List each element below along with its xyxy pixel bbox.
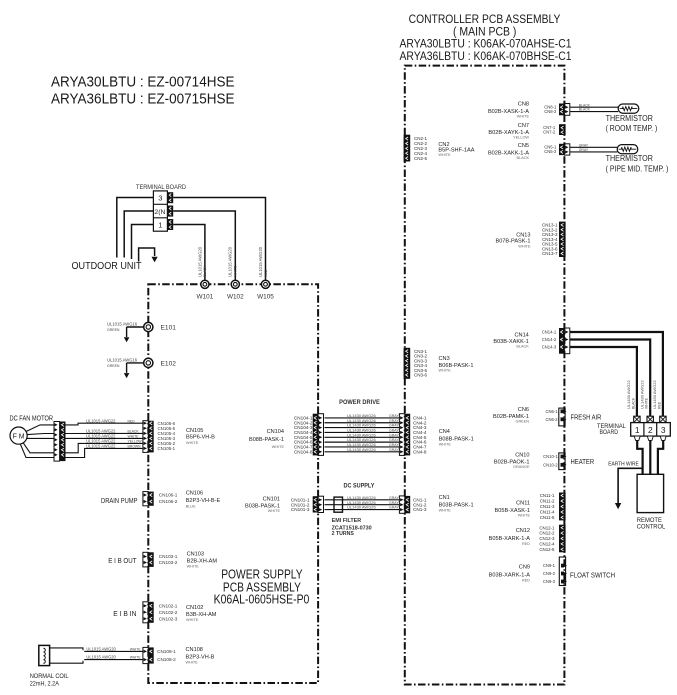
earth terminal E102 [127,362,144,364]
power supply PCB assembly border [148,284,318,683]
svg-text:WHITE: WHITE [186,618,199,622]
connector CN1 [399,496,404,513]
svg-text:GRAY: GRAY [389,433,399,437]
svg-text:BLACK: BLACK [579,103,591,107]
svg-text:UL1015 AWG20: UL1015 AWG20 [228,246,233,277]
svg-text:CN11-1: CN11-1 [540,493,555,498]
earth terminal E101 [127,326,144,328]
svg-text:CN106-2: CN106-2 [159,499,178,504]
svg-text:CN13: CN13 [516,232,530,238]
svg-text:GRAY: GRAY [389,429,399,433]
svg-text:WHITE: WHITE [439,443,452,447]
wire GRAY CN5-2 to thermistor [570,151,617,153]
svg-text:GRAY: GRAY [579,148,589,152]
svg-text:CN8: CN8 [518,101,529,107]
svg-text:FRESH AIR: FRESH AIR [571,412,602,421]
connector CN106 [143,492,148,506]
svg-text:F M: F M [13,433,25,440]
connector CN14 [564,328,569,354]
svg-text:CN108-2: CN108-2 [157,657,176,662]
wire terminal 1 to W101 [173,225,205,280]
svg-text:CN10-1: CN10-1 [543,454,558,459]
wire terminal 3 to outdoor unit [117,198,154,258]
svg-text:CN6-2: CN6-2 [545,417,558,422]
svg-text:GRAY: GRAY [389,501,399,505]
svg-text:CN104-8: CN104-8 [294,449,313,454]
wire UL1430 AWG26 GRAY CN104-1 to CN4-1 [325,417,400,419]
svg-text:WHITE: WHITE [130,647,142,651]
svg-text:E101: E101 [161,325,177,332]
svg-text:UL1015 AWG16: UL1015 AWG16 [107,358,138,363]
remote control box [637,474,664,512]
svg-text:WHITE: WHITE [186,661,199,665]
svg-text:CN1: CN1 [439,495,450,501]
svg-text:YELLOW: YELLOW [128,440,143,444]
wire GRAY CN5-1 to thermistor [570,146,617,148]
connector CN5 [564,144,569,155]
svg-text:22mH, 2.2A: 22mH, 2.2A [30,681,60,688]
svg-text:CN6: CN6 [518,407,529,413]
wire UL1015 AWG22 BLACK to CN105-4 [66,432,143,434]
svg-text:B5P6-VH-B: B5P6-VH-B [186,435,215,441]
wire terminal 2 to W102 [173,211,235,280]
inline connector fan motor [54,422,60,462]
connector CN8 [564,104,569,116]
svg-text:UL1015 AWG16: UL1015 AWG16 [107,322,138,327]
svg-text:BOARD: BOARD [600,429,619,436]
connector CN10 [559,453,565,470]
svg-text:UL1015 AWG20: UL1015 AWG20 [86,655,116,660]
connector CN3 [404,348,411,379]
svg-text:CN12-2: CN12-2 [539,531,555,536]
svg-text:GRAY: GRAY [389,438,399,442]
connector W101 [201,280,209,288]
connector CN7 [559,124,566,135]
svg-text:ARYA30LBTU : EZ-00714HSE: ARYA30LBTU : EZ-00714HSE [51,74,235,90]
svg-text:BLACK: BLACK [631,397,635,409]
svg-text:CN14-2: CN14-2 [542,337,557,342]
svg-text:2 TURNS: 2 TURNS [332,531,354,537]
svg-text:2(N: 2(N [154,209,165,216]
svg-text:CN11: CN11 [516,501,530,507]
connector CN103 [143,552,148,567]
connector CN102 [143,602,148,623]
svg-text:E102: E102 [161,361,177,368]
svg-text:CN3: CN3 [439,356,450,362]
svg-text:NORMAL COIL: NORMAL COIL [30,673,69,680]
wire terminal 1 to outdoor unit [132,225,154,260]
svg-text:GREEN: GREEN [107,364,120,368]
svg-text:EARTH WIRE: EARTH WIRE [608,461,639,467]
svg-text:CN108: CN108 [186,647,203,653]
svg-text:W105: W105 [257,294,274,301]
svg-text:BLACK: BLACK [203,265,207,277]
svg-text:WHITE: WHITE [645,397,649,409]
svg-text:CN10-2: CN10-2 [543,462,558,467]
svg-text:GREEN: GREEN [515,420,529,424]
svg-text:CN4-8: CN4-8 [413,449,427,454]
connector CN105 [143,421,148,453]
svg-text:EMI FILTER: EMI FILTER [332,518,362,524]
svg-text:GRAY: GRAY [389,496,399,500]
svg-text:WHITE: WHITE [268,509,281,513]
wire UL1430 AWG26 GRAY CN104-3 to CN4-3 [325,427,400,429]
svg-text:1: 1 [158,221,162,230]
wire UL1015 AWG22 WHITE to CN105-3 [66,437,143,439]
svg-text:UL1015 AWG20: UL1015 AWG20 [86,646,116,651]
wire BLACK CN8-2 to thermistor [570,111,618,113]
svg-text:YELLOW: YELLOW [513,136,529,140]
thermistor room temp [618,104,639,113]
svg-text:FLOAT SWITCH: FLOAT SWITCH [570,571,615,580]
svg-text:CN103-1: CN103-1 [159,554,178,559]
svg-text:RED: RED [657,401,661,409]
connector CN2 [404,135,411,162]
svg-text:W101: W101 [197,294,214,301]
svg-text:CN11-4: CN11-4 [540,510,555,515]
connector CN9 [559,557,565,586]
connector CN101 [318,496,323,512]
svg-text:BLUE: BLUE [186,504,196,508]
svg-text:ORANGE: ORANGE [513,465,530,469]
svg-text:WHITE: WHITE [518,245,531,249]
svg-text:CN9: CN9 [519,565,530,571]
wire terminal 3 to W105 [173,198,265,280]
svg-text:CN108-1: CN108-1 [157,649,176,654]
connector CN104 [318,414,323,456]
svg-text:UL1015 AWG22: UL1015 AWG22 [86,418,116,423]
svg-text:B2P3-VH-B: B2P3-VH-B [186,654,215,660]
svg-text:3: 3 [661,425,666,435]
svg-text:CN5: CN5 [518,143,529,149]
svg-text:CN12-5: CN12-5 [539,547,555,552]
EMI filter [334,497,343,512]
svg-text:RED: RED [264,269,268,277]
connector CN6 [559,408,565,426]
wire CN14-2 to terminal 2 [570,340,650,417]
connector CN4 [399,414,404,456]
svg-text:CN13-7: CN13-7 [542,251,558,256]
thermistor pipe mid temp [617,145,638,154]
svg-text:UL1015 AWG20: UL1015 AWG20 [258,246,263,277]
connector W105 [261,280,269,288]
svg-text:CN101: CN101 [263,497,280,503]
svg-text:BLACK: BLACK [579,108,591,112]
svg-text:RED: RED [522,542,530,546]
svg-text:CN4: CN4 [439,429,450,435]
svg-text:CN104: CN104 [267,429,284,435]
wire terminal 2 to remote control [649,440,651,474]
svg-text:WHITE: WHITE [272,445,285,449]
svg-text:GRAY: GRAY [389,414,399,418]
svg-text:WHITE: WHITE [518,514,531,518]
svg-text:WHITE: WHITE [186,441,199,445]
svg-text:ARYA36LBTU : K06AK-070BHSE-C1: ARYA36LBTU : K06AK-070BHSE-C1 [400,49,572,63]
svg-text:CN103-2: CN103-2 [159,560,178,565]
svg-text:GRAY: GRAY [389,448,399,452]
svg-text:GRAY: GRAY [389,443,399,447]
svg-text:POWER DRIVE: POWER DRIVE [339,399,380,406]
wire CN14-3 to terminal 1 [570,347,637,416]
svg-text:3: 3 [158,194,162,203]
wire UL1015 AWG22 YELLOW to CN105-2 [66,443,143,452]
wire UL1430 AWG26 GRAY CN101-3 to CN1-3 [325,509,400,511]
wire CN14-1 to terminal 3 [570,332,663,416]
svg-text:CN10: CN10 [515,452,529,458]
svg-text:UL1015 AWG22: UL1015 AWG22 [86,444,116,449]
wire UL1430 AWG26 GRAY CN104-6 to CN4-6 [325,441,400,443]
wire UL1015 AWG20 WHITE to CN108-2 [84,659,143,661]
terminal crimps [634,436,640,440]
svg-text:WHITE: WHITE [439,368,452,372]
wire UL1015 AWG22 BROWN to CN105-1 [66,448,143,457]
svg-text:CN8-2: CN8-2 [544,109,557,114]
svg-text:OUTDOOR UNIT: OUTDOOR UNIT [72,261,143,272]
wire UL1430 AWG26 GRAY CN101-2 to CN1-2 [325,504,400,506]
svg-text:B03B-PASK-1: B03B-PASK-1 [439,502,474,508]
svg-text:E I B OUT: E I B OUT [108,558,137,565]
svg-text:CN12: CN12 [516,528,530,534]
svg-text:UL1430 AWG26: UL1430 AWG26 [347,447,377,452]
svg-text:DC SUPPLY: DC SUPPLY [344,482,375,489]
wire terminal 3 to remote control [658,440,663,474]
svg-text:DRAIN PUMP: DRAIN PUMP [101,496,138,505]
svg-text:CN102-2: CN102-2 [159,610,178,615]
svg-text:CN5-2: CN5-2 [544,149,557,154]
controller PCB assembly border [405,66,565,685]
svg-text:CN105: CN105 [186,428,203,434]
svg-text:CN14-1: CN14-1 [542,330,557,335]
svg-text:GREEN: GREEN [107,328,120,332]
outdoor unit earth wire [139,248,155,262]
connector CN12 [559,525,566,553]
wire UL1430 AWG26 GRAY CN104-7 to CN4-7 [325,446,400,448]
svg-text:CN7: CN7 [518,123,529,129]
svg-text:BLACK: BLACK [517,156,530,160]
svg-text:WHITE: WHITE [438,153,451,157]
svg-text:RED: RED [522,578,530,582]
svg-text:CN9-1: CN9-1 [543,563,556,568]
wire UL1430 AWG26 GRAY CN104-2 to CN4-2 [325,422,400,424]
wire UL1430 AWG26 GRAY CN104-5 to CN4-5 [325,436,400,438]
connector CN13 [559,222,566,257]
svg-text:B07B-PASK-1: B07B-PASK-1 [495,239,530,245]
svg-text:CONTROL: CONTROL [637,524,666,531]
svg-text:CN105-1: CN105-1 [158,446,176,451]
svg-text:B08B-PASK-1: B08B-PASK-1 [439,436,474,442]
wire UL1015 AWG22 RED to CN105-6 [66,423,143,425]
svg-text:CN11-5: CN11-5 [540,515,555,520]
wire terminal 2 to outdoor unit [124,211,153,258]
svg-text:CN3-6: CN3-6 [414,373,428,378]
svg-text:CN11-2: CN11-2 [540,499,555,504]
wire UL1430 AWG26 GRAY CN101-1 to CN1-1 [325,499,400,501]
svg-text:RED: RED [128,419,136,423]
svg-text:THERMISTOR: THERMISTOR [606,114,653,123]
svg-text:CN9-2: CN9-2 [543,571,556,576]
svg-text:WHITE: WHITE [439,509,452,513]
connector CN11 [559,493,566,521]
svg-text:CN11-3: CN11-3 [540,504,555,509]
wire UL1015 AWG20 WHITE to CN108-1 [84,650,143,652]
svg-text:( ROOM TEMP. ): ( ROOM TEMP. ) [606,124,658,133]
svg-text:CN1-3: CN1-3 [413,507,427,512]
svg-text:CN102: CN102 [186,605,203,611]
svg-text:GRAY: GRAY [389,419,399,423]
svg-text:B2B-XH-AM: B2B-XH-AM [187,559,218,565]
splice symbols [634,416,640,422]
svg-text:K06AL-0605HSE-P0: K06AL-0605HSE-P0 [214,592,310,607]
connector CN108 [143,647,148,663]
svg-text:CN102-3: CN102-3 [159,616,178,621]
svg-text:W102: W102 [227,294,244,301]
svg-text:CN9-3: CN9-3 [543,579,556,584]
svg-text:WHITE: WHITE [128,435,140,439]
svg-text:BLACK: BLACK [516,345,529,349]
svg-text:THERMISTOR: THERMISTOR [606,154,653,163]
connector W102 [231,280,239,288]
svg-text:CN12-4: CN12-4 [539,542,555,547]
svg-text:UL1015 AWG20: UL1015 AWG20 [197,246,202,277]
svg-text:CN103: CN103 [187,552,204,558]
svg-text:BLACK: BLACK [128,430,140,434]
svg-text:1: 1 [635,425,640,435]
wire UL1430 AWG26 GRAY CN104-8 to CN4-8 [325,451,400,453]
svg-text:TERMINAL BOARD: TERMINAL BOARD [136,184,186,191]
svg-text:BROWN: BROWN [128,445,142,449]
wire terminal 1 to remote control [637,440,642,474]
svg-text:GRAY: GRAY [389,506,399,510]
svg-text:WHITE: WHITE [517,115,530,119]
svg-text:CN2-5: CN2-5 [414,156,428,161]
svg-text:CN12-1: CN12-1 [539,525,555,530]
svg-text:B3B-XH-AM: B3B-XH-AM [186,612,217,618]
svg-text:CN101-3: CN101-3 [291,507,310,512]
svg-text:WHITE: WHITE [187,565,200,569]
svg-text:2: 2 [648,425,653,435]
svg-text:GRAY: GRAY [579,143,589,147]
svg-text:HEATER: HEATER [571,457,595,466]
svg-text:B2P3-VH-B-E: B2P3-VH-B-E [186,498,221,504]
svg-text:B08B-PASK-1: B08B-PASK-1 [249,437,284,443]
svg-text:GRAY: GRAY [389,424,399,428]
svg-text:CN106: CN106 [186,491,203,497]
wire UL1430 AWG26 GRAY CN104-4 to CN4-4 [325,431,400,433]
fan motor FM [10,427,27,444]
svg-text:ARYA36LBTU : EZ-00715HSE: ARYA36LBTU : EZ-00715HSE [51,92,235,108]
svg-text:CN14-3: CN14-3 [542,345,557,350]
svg-text:CN7-2: CN7-2 [543,130,556,135]
svg-text:WHITE: WHITE [130,656,142,660]
svg-text:( PIPE MID. TEMP. ): ( PIPE MID. TEMP. ) [606,164,669,173]
svg-text:CN6-1: CN6-1 [545,409,558,414]
svg-text:CN102-1: CN102-1 [159,603,178,608]
svg-text:E I B IN: E I B IN [113,611,136,618]
svg-text:CN14: CN14 [514,333,528,339]
svg-text:CN12-3: CN12-3 [539,536,555,541]
normal coil [39,645,50,665]
fan motor wires to connector [27,425,54,431]
svg-text:UL1430 AWG26: UL1430 AWG26 [347,505,377,510]
wire BLACK CN8-1 to thermistor [570,106,618,108]
svg-text:WHITE: WHITE [234,265,238,277]
svg-text:DC FAN MOTOR: DC FAN MOTOR [10,414,54,423]
svg-text:CN106-1: CN106-1 [159,493,178,498]
